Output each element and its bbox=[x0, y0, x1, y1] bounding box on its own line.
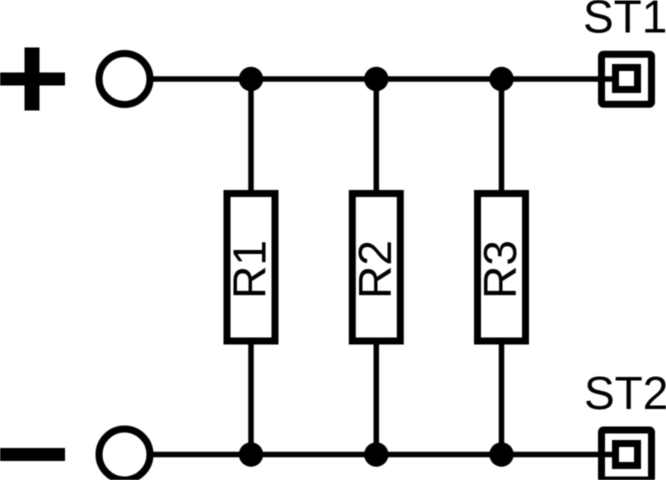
connector ST2 (outer square) bbox=[602, 430, 652, 480]
terminal circle (top input) bbox=[99, 54, 150, 105]
junction node: top rail / R1 bbox=[239, 67, 263, 91]
wire: bottom rail bbox=[153, 452, 613, 458]
minus symbol (negative supply terminal) bbox=[0, 448, 65, 461]
resistor R1 bbox=[224, 194, 276, 342]
junction node: bottom rail / R3 bbox=[489, 442, 513, 466]
terminal circle (bottom input) bbox=[99, 429, 150, 480]
junction node: bottom rail / R2 bbox=[364, 442, 388, 466]
junction node: top rail / R2 bbox=[364, 67, 388, 91]
wire: R3 branch vertical bbox=[499, 79, 505, 455]
plus symbol (positive supply terminal) bbox=[0, 48, 65, 111]
junction node: top rail / R3 bbox=[489, 67, 513, 91]
svg-text:ST1: ST1 bbox=[583, 0, 666, 43]
svg-text:ST2: ST2 bbox=[584, 367, 666, 419]
connector ST1 (outer square) bbox=[602, 54, 652, 104]
svg-text:R3: R3 bbox=[474, 240, 526, 299]
wire: R2 branch vertical bbox=[374, 79, 380, 455]
junction node: bottom rail / R1 bbox=[239, 442, 263, 466]
connector ST2 (inner square pin) bbox=[616, 444, 638, 466]
wire: top rail bbox=[153, 76, 613, 82]
svg-text:R2: R2 bbox=[349, 240, 401, 299]
connector ST1 (inner square pin) bbox=[616, 68, 638, 90]
svg-text:R1: R1 bbox=[224, 240, 276, 299]
resistor R2 bbox=[349, 194, 401, 342]
resistor R3 bbox=[474, 194, 526, 342]
label ST1 bbox=[583, 0, 666, 43]
label ST2 bbox=[584, 367, 666, 419]
wire: R1 branch vertical bbox=[248, 79, 254, 455]
